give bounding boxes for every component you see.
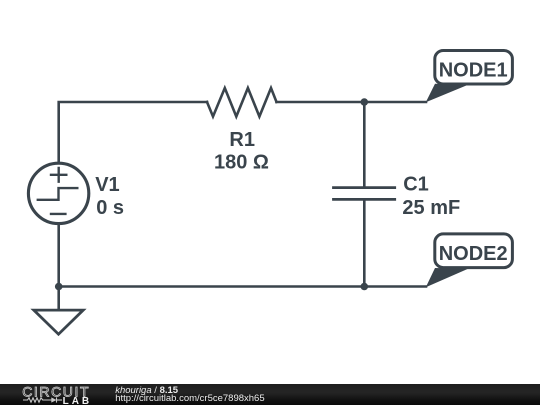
svg-text:LAB: LAB [63, 396, 93, 405]
svg-text:R1: R1 [229, 129, 255, 151]
svg-text:180 Ω: 180 Ω [214, 152, 269, 174]
svg-text:25 mF: 25 mF [402, 197, 460, 219]
svg-text:0 s: 0 s [96, 197, 124, 219]
svg-text:NODE1: NODE1 [439, 60, 508, 82]
svg-text:NODE2: NODE2 [439, 243, 508, 265]
svg-text:C1: C1 [403, 174, 429, 196]
svg-text:V1: V1 [95, 174, 119, 196]
